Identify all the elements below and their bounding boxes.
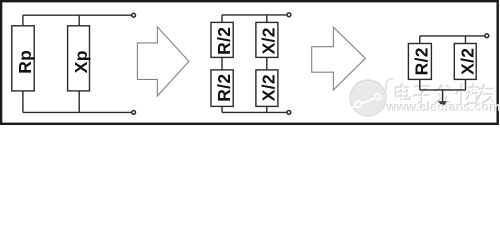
resistor R/2 (circuit3) <box>408 44 431 80</box>
node: circuit1 top terminal <box>132 13 136 17</box>
resistor R/2 (lower) <box>211 70 234 107</box>
wire: circuit3 top bus <box>420 35 485 37</box>
svg-text:www.elecfans.com: www.elecfans.com <box>386 100 500 115</box>
svg-text:X/2: X/2 <box>258 27 278 54</box>
wire: X/2 upper stub <box>266 15 268 23</box>
svg-text:Rp: Rp <box>15 50 35 74</box>
wire: Rp top stub <box>22 15 24 26</box>
wire: X/2 top stub (circuit3) <box>465 36 467 44</box>
wire: Xp bottom stub <box>78 91 80 113</box>
wire: X/2 bottom stub (circuit3) <box>465 79 467 90</box>
wire: circuit2 top bus <box>222 14 287 16</box>
arrow: output down arrowhead <box>438 101 447 107</box>
wire: X/2 lower stub <box>266 106 268 112</box>
svg-text:X/2: X/2 <box>457 48 477 75</box>
wire: circuit1 bottom bus <box>23 111 131 113</box>
node: circuit1 bottom terminal <box>132 111 136 115</box>
wire: output drop <box>442 90 444 101</box>
wire: X branch middle link <box>266 57 268 70</box>
watermark text: fa <box>435 85 453 105</box>
node: circuit2 top terminal <box>287 13 291 17</box>
svg-text:R/2: R/2 <box>214 27 234 55</box>
wire: R/2 bottom stub (circuit3) <box>419 79 421 90</box>
arrow: transformation step 1 <box>137 27 189 96</box>
node: circuit3 top terminal <box>485 34 489 38</box>
watermark text: you <box>478 84 496 104</box>
watermark text: dian <box>396 84 411 101</box>
wire: Rp bottom stub <box>22 91 24 113</box>
wire: circuit2 bottom bus <box>222 111 287 113</box>
resistor R/2 (upper) <box>211 22 234 57</box>
wire: circuit3 bottom bus <box>420 89 466 91</box>
svg-text:R/2: R/2 <box>214 74 234 102</box>
reactance X/2 (circuit3) <box>454 44 477 80</box>
svg-text:X/2: X/2 <box>258 74 278 101</box>
wire: R/2 top stub (circuit3) <box>419 36 421 44</box>
node: circuit2 bottom terminal <box>287 111 291 115</box>
watermark logo <box>350 79 394 117</box>
wire: Xp top stub <box>78 15 80 26</box>
reactance X/2 (lower) <box>256 70 279 107</box>
reactance X/2 (upper) <box>256 22 279 57</box>
svg-text:R/2: R/2 <box>411 47 431 75</box>
watermark text: shao <box>456 84 480 105</box>
watermark text: zi <box>413 87 430 104</box>
svg-text:Xp: Xp <box>71 50 91 73</box>
wire: circuit1 top bus <box>23 14 131 16</box>
wire: R/2 lower stub <box>221 106 223 112</box>
reactance Xp <box>68 26 92 91</box>
resistor Rp <box>12 26 35 91</box>
wire: R/2 upper stub <box>221 15 223 23</box>
wire: R branch middle link <box>221 57 223 70</box>
border frame <box>1 1 498 124</box>
arrow: transformation step 2 <box>312 27 366 90</box>
